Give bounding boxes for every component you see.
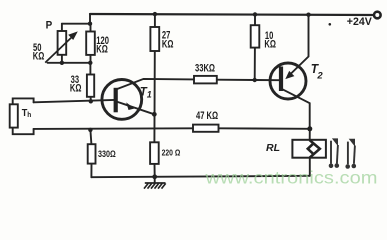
wire 33K bottom stub: [90, 97, 92, 102]
relay RL coil box: [292, 140, 326, 158]
svg-text:220 Ω: 220 Ω: [162, 148, 181, 158]
transistor T1: [102, 80, 142, 120]
node relay top: [307, 126, 312, 131]
svg-text:h: h: [27, 110, 31, 119]
wire T1 emitter: [118, 102, 155, 114]
node rail 27K: [153, 12, 157, 16]
wire T1 collector: [116, 79, 194, 90]
node pot top: [88, 22, 92, 26]
node 330 top: [88, 128, 92, 132]
svg-text:33KΩ: 33KΩ: [195, 61, 215, 74]
svg-text:P: P: [46, 20, 53, 32]
ground: [144, 183, 166, 189]
svg-text:2: 2: [316, 70, 323, 81]
wire 330 top stub: [90, 130, 91, 144]
wire Th to T1 base: [34, 100, 115, 102]
wire relay top: [309, 129, 311, 140]
wire 27K top stub: [154, 14, 156, 27]
wire T2 emitter from rail: [289, 15, 309, 76]
wire bottom rail: [91, 176, 309, 177]
resistor 120K: [86, 32, 95, 55]
wire Th bottom bracket: [13, 128, 34, 135]
node rail T2: [306, 13, 310, 17]
wire ground stub: [154, 177, 156, 183]
wire 10K bottom to 33K node: [254, 48, 256, 80]
wire parallel top P/120K: [62, 23, 91, 25]
svg-text:KΩ: KΩ: [96, 42, 108, 55]
wire 10K top stub: [254, 14, 256, 25]
wire Th top bracket: [13, 98, 34, 104]
node T2 base: [253, 78, 257, 82]
resistor 47K: [193, 125, 219, 132]
wire node to 33K top: [89, 63, 91, 75]
wire 120K bottom stub: [90, 55, 92, 63]
svg-text:1: 1: [147, 90, 152, 100]
wire 47K right: [219, 127, 310, 130]
svg-text:KΩ: KΩ: [33, 49, 45, 62]
wire pot top stub: [61, 24, 63, 31]
svg-text:RL: RL: [266, 142, 280, 154]
svg-text:KΩ: KΩ: [70, 81, 82, 94]
wire Th bottom to 47K: [34, 127, 193, 130]
svg-text:KΩ: KΩ: [162, 37, 174, 50]
wire 330 bottom stub: [90, 164, 92, 178]
wire riser pot node to rail: [89, 14, 91, 24]
wire 33K horiz to T2 base: [217, 79, 280, 82]
resistor 220: [150, 142, 159, 164]
wire top rail +24V: [90, 14, 373, 15]
relay contacts: [329, 138, 356, 168]
potentiometer P body: [58, 31, 67, 55]
node ground: [152, 174, 157, 179]
wire relay bottom: [309, 158, 311, 176]
wire 220 bottom stub: [154, 164, 156, 177]
resistor 10K: [251, 25, 260, 47]
svg-text:KΩ: KΩ: [264, 37, 276, 50]
svg-text:www.cntronics.com: www.cntronics.com: [204, 168, 377, 188]
wire 120K top stub: [90, 24, 92, 32]
relay chevron: [308, 140, 320, 158]
speck near +24V: [329, 23, 332, 26]
thermistor Th body: [10, 104, 18, 127]
resistor 330: [88, 144, 96, 163]
resistor 33K horizontal: [194, 76, 217, 84]
node rail 10K: [253, 12, 257, 16]
svg-text:330Ω: 330Ω: [98, 149, 116, 159]
node 120K bottom: [88, 61, 92, 65]
terminal +24V: [374, 12, 381, 19]
wire 27K to T1 emitter to 220: [153, 51, 155, 142]
svg-text:+24V: +24V: [347, 16, 373, 28]
node pot bottom: [60, 61, 64, 65]
node T1 emitter: [152, 112, 157, 117]
transistor T2: [270, 63, 306, 99]
wire parallel bottom P/120K: [48, 62, 91, 64]
wire T2 collector down: [282, 89, 310, 129]
potentiometer wiper arrow: [45, 31, 78, 62]
resistor 27K: [150, 27, 159, 51]
resistor 33K vertical: [87, 75, 94, 97]
svg-text:47 KΩ: 47 KΩ: [196, 109, 219, 122]
wire pot bottom stub: [61, 55, 63, 63]
node T1 base: [89, 99, 93, 103]
